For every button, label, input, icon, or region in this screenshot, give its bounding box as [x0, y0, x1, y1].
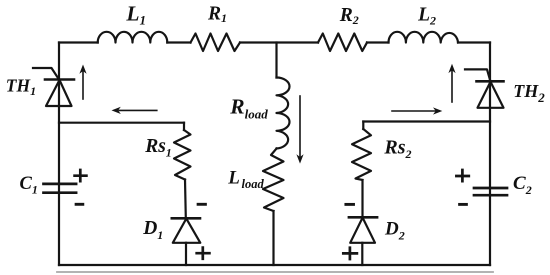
resistor Rs1	[174, 130, 191, 180]
resistor R1	[191, 34, 241, 52]
arrow down at Rload	[296, 96, 303, 164]
wire Rs2 to D2	[361, 180, 363, 217]
wire inner left horizontal	[59, 122, 184, 124]
thyristor TH1 triangle	[46, 80, 72, 106]
inductor L1	[98, 32, 168, 43]
plus sign at C1	[75, 170, 87, 181]
diode D1 triangle	[173, 219, 201, 243]
capacitor C1 plates	[44, 184, 77, 193]
thyristor TH2 gate	[465, 69, 491, 81]
thyristor TH1 bar	[45, 78, 74, 81]
wire top rail right segment	[458, 41, 490, 43]
wire bottom rail	[59, 264, 490, 266]
svg-text:Lload: Lload	[227, 168, 264, 191]
svg-text:R2: R2	[339, 5, 359, 27]
thyristor TH1 gate	[33, 68, 59, 80]
minus sign at D2	[346, 203, 354, 206]
wire inner right horizontal	[363, 120, 490, 122]
wire Rs2 branch top	[362, 122, 364, 130]
diode D2 triangle	[350, 218, 375, 243]
svg-text:Rs1: Rs1	[144, 136, 172, 160]
svg-text:D2: D2	[384, 219, 405, 243]
minus sign at C1	[76, 203, 83, 206]
capacitor C2 plates	[474, 188, 507, 195]
resistor Rs2	[352, 129, 371, 180]
arrow up at TH1	[79, 65, 86, 100]
wire top rail left segment	[59, 41, 98, 43]
inductor Lload (zigzag symbol)	[263, 149, 284, 212]
plus sign at C2	[456, 170, 468, 181]
svg-text:L1: L1	[125, 2, 146, 28]
svg-text:C2: C2	[513, 173, 532, 197]
svg-text:R1: R1	[207, 3, 227, 25]
wire between R1 and R2 through top node	[240, 41, 318, 43]
svg-text:C1: C1	[20, 174, 38, 197]
diode D2 bar	[349, 216, 377, 219]
minus sign at D1	[198, 203, 205, 206]
wire between L1 and R1	[167, 41, 190, 43]
plus sign at D1	[197, 248, 210, 259]
inductor L2	[389, 32, 459, 43]
resistor Rload (coil symbol)	[277, 78, 290, 149]
wire right rail	[489, 43, 491, 266]
svg-text:TH2: TH2	[513, 81, 545, 105]
thyristor TH2 triangle	[478, 82, 504, 108]
wire between R2 and L2	[367, 41, 389, 43]
plus sign at D2	[343, 248, 357, 259]
svg-text:L2: L2	[417, 5, 436, 28]
wire Rs1 to D1	[184, 180, 187, 219]
svg-text:D1: D1	[142, 218, 163, 242]
wire middle branch top	[275, 43, 277, 78]
wire middle branch bottom	[272, 211, 274, 265]
minus sign at C2	[460, 203, 467, 206]
arrow left above inner wire	[112, 107, 157, 114]
wire D2 to bottom rail	[361, 243, 363, 265]
arrow right above inner wire	[392, 107, 442, 114]
diode D1 bar	[172, 217, 200, 220]
svg-text:Rload: Rload	[229, 95, 268, 122]
svg-text:TH1: TH1	[6, 75, 36, 98]
wire left rail	[58, 43, 60, 266]
grey baseline	[57, 271, 493, 273]
wire D1 to bottom rail	[185, 243, 187, 265]
svg-text:Rs2: Rs2	[383, 137, 411, 162]
wire Rs1 branch top	[183, 123, 185, 130]
resistor R2	[318, 34, 367, 52]
thyristor TH2 bar	[477, 80, 504, 83]
arrow up at TH2	[448, 64, 455, 102]
